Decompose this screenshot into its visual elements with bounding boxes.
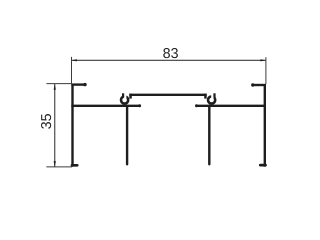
dimension 35 bottom extension line — [46, 166, 72, 168]
dimension text 83 — [163, 48, 178, 58]
profile raised web — [129, 94, 206, 96]
profile right wall — [264, 84, 266, 167]
profile right leg — [208, 106, 210, 165]
dimension text 35 — [41, 114, 51, 129]
dimension 83 right extension line — [265, 57, 267, 84]
dimension 83 left extension line — [71, 57, 73, 84]
arrow 83 left — [72, 59, 77, 61]
profile right bottom foot — [260, 164, 265, 167]
profile left flange — [71, 105, 139, 107]
bulb ends of tabs and flanges — [83, 83, 254, 107]
right screw boss ring — [204, 92, 215, 103]
arrow 35 top — [54, 84, 56, 90]
arrow 35 bottom — [54, 161, 56, 167]
profile left leg — [126, 106, 128, 165]
arrow 83 right — [261, 59, 266, 61]
profile right flange — [197, 105, 267, 107]
dimension 83 line — [72, 59, 266, 61]
profile left bottom foot — [72, 164, 77, 167]
left screw boss ring — [121, 92, 132, 103]
profile right top tab — [253, 84, 266, 86]
profile left top tab — [71, 83, 84, 85]
profile left wall — [71, 84, 73, 167]
dimension 35 top extension line — [46, 83, 72, 85]
dimension 35 line — [54, 84, 56, 167]
